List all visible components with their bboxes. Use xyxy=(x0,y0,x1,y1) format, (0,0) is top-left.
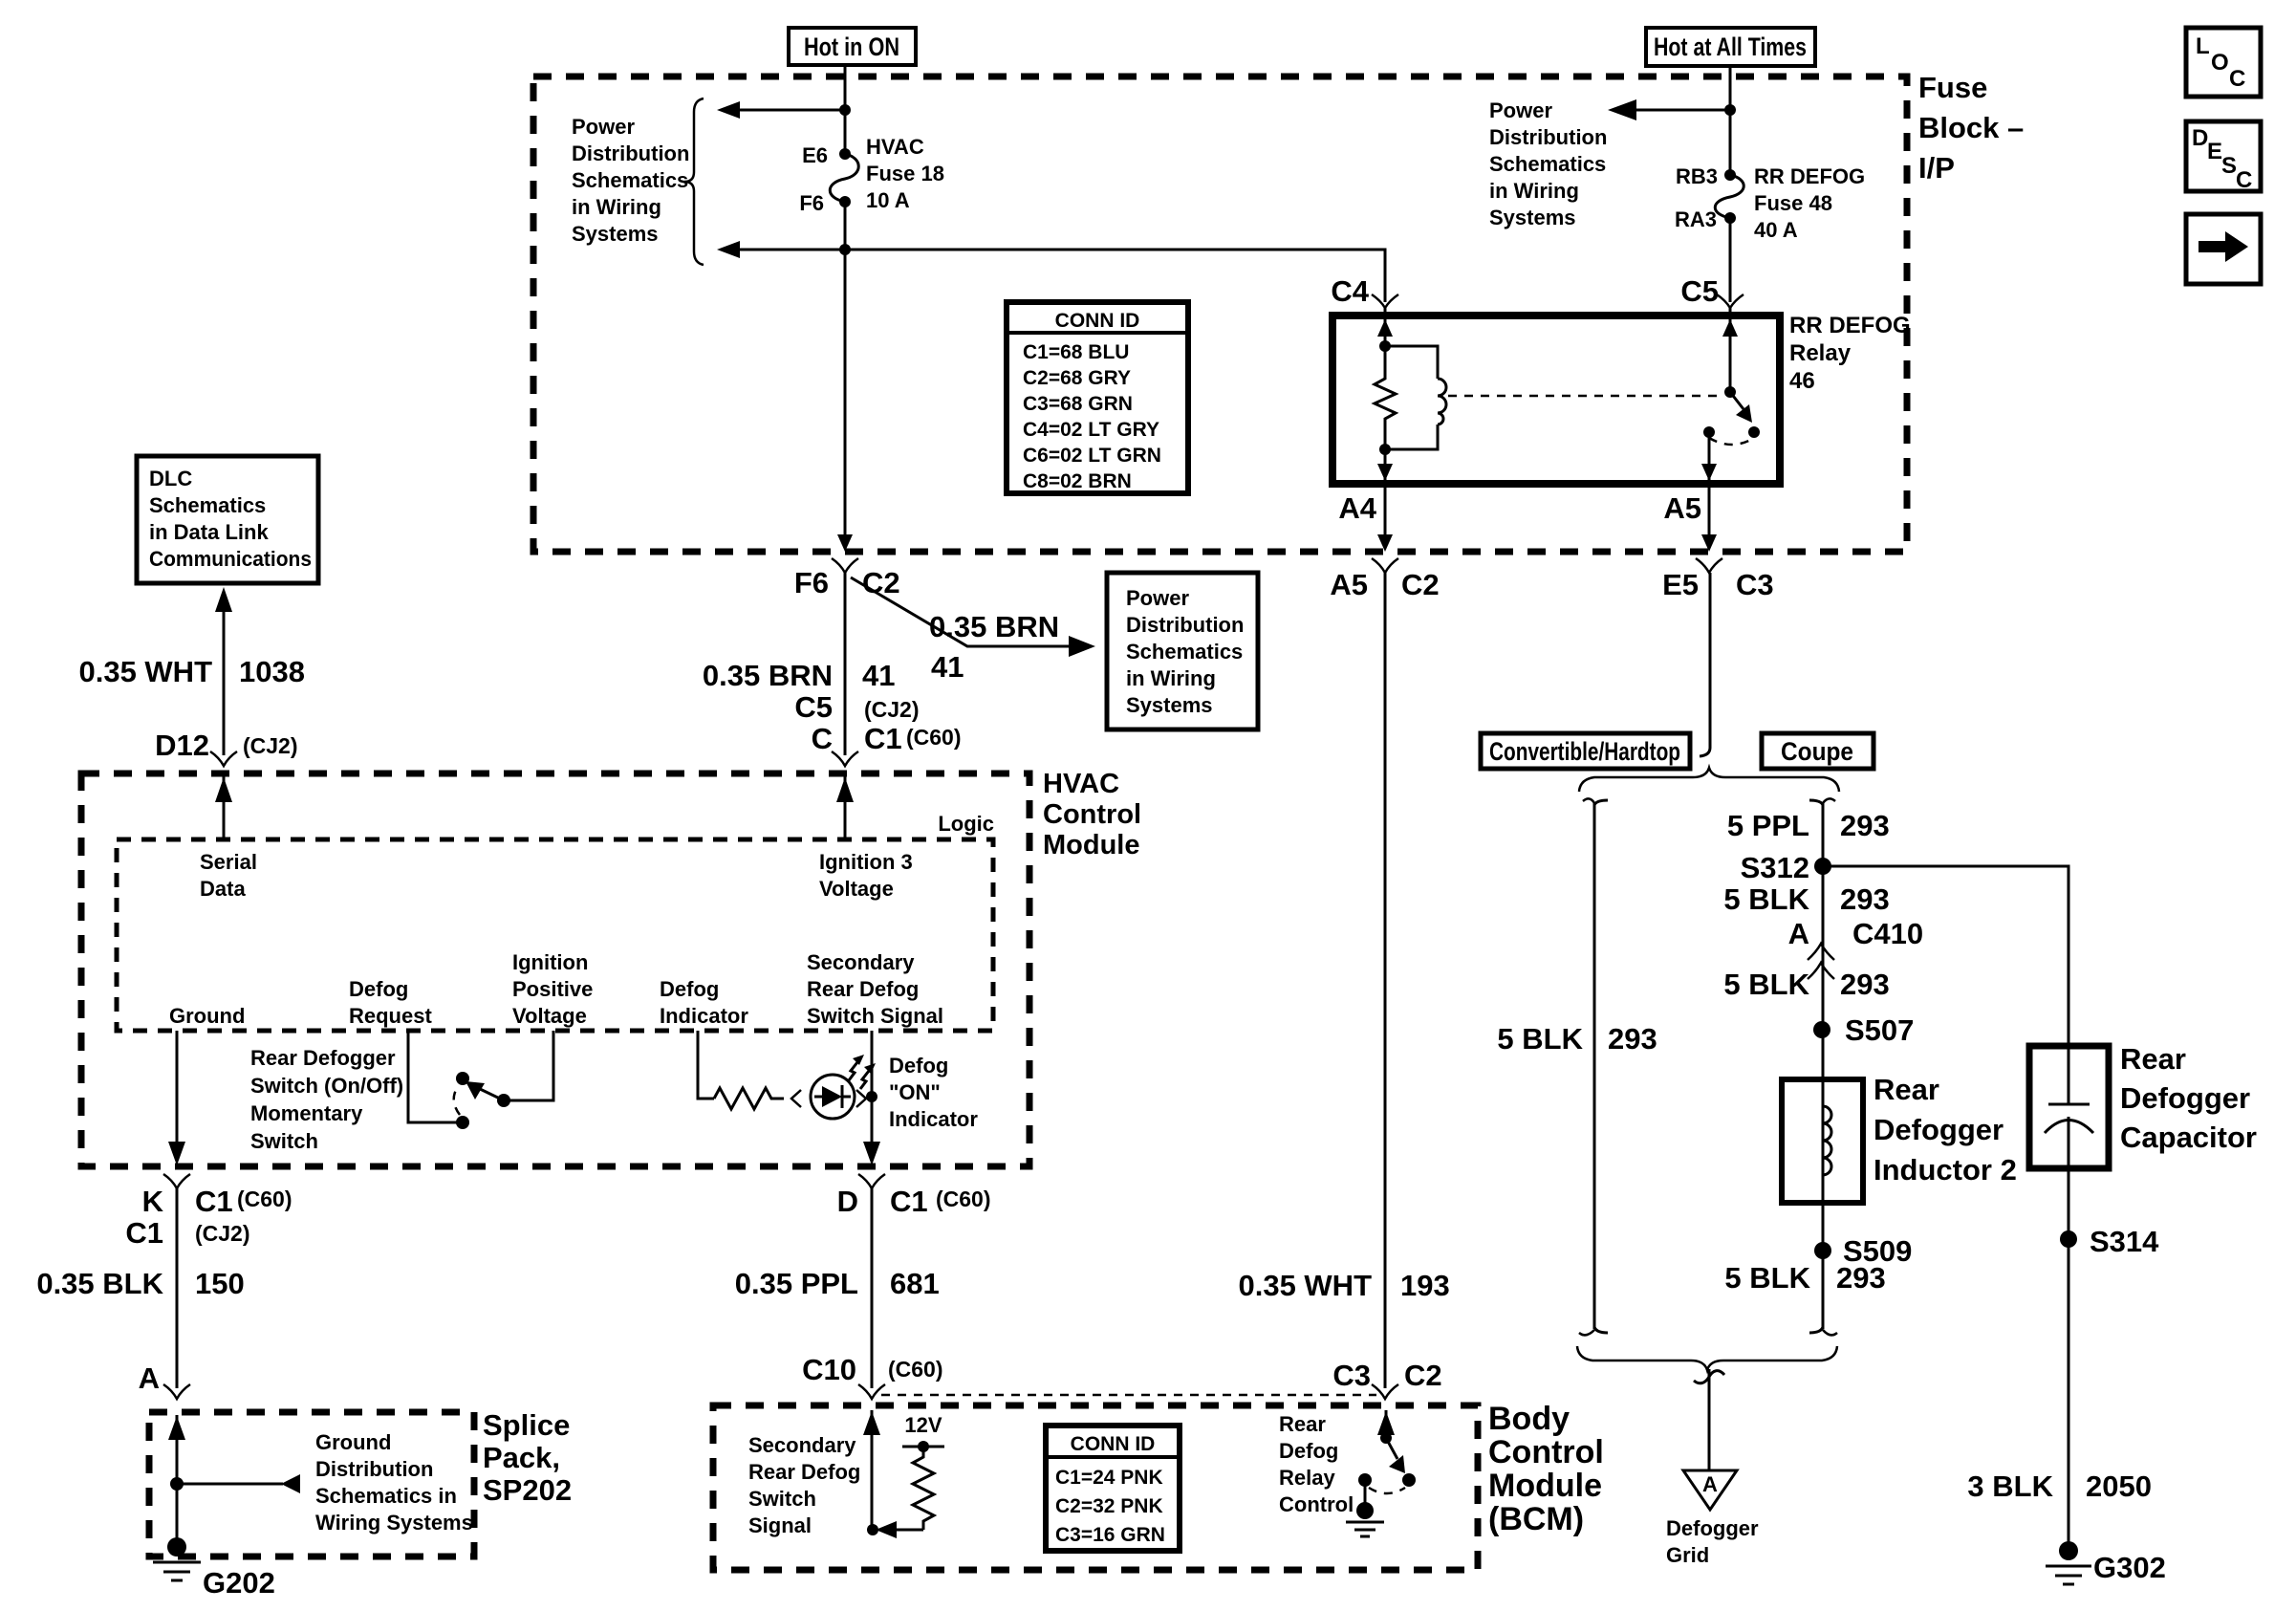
BCM ground symbol xyxy=(1346,1502,1384,1536)
svg-text:41: 41 xyxy=(931,650,964,684)
svg-text:Defog: Defog xyxy=(889,1054,948,1078)
relay internal dashed link xyxy=(1448,395,1721,398)
svg-text:Momentary: Momentary xyxy=(250,1101,363,1125)
svg-text:0.35 WHT: 0.35 WHT xyxy=(1238,1269,1372,1302)
svg-text:"ON": "ON" xyxy=(889,1080,941,1104)
node Convertible/Hardtop xyxy=(1481,733,1690,769)
svg-text:(CJ2): (CJ2) xyxy=(864,697,920,722)
svg-text:Fuse 48: Fuse 48 xyxy=(1754,191,1832,215)
svg-text:Rear Defog: Rear Defog xyxy=(807,977,919,1001)
svg-text:5 BLK: 5 BLK xyxy=(1497,1022,1583,1056)
wire serial data into module with up arrow xyxy=(215,776,232,839)
svg-text:S507: S507 xyxy=(1845,1013,1914,1047)
svg-text:HVAC: HVAC xyxy=(866,135,924,159)
label Defog ON Indicator xyxy=(889,1054,978,1131)
connector collar C4 xyxy=(1372,294,1398,308)
wire contact to BCM ground xyxy=(1364,1480,1367,1503)
brace for power distribution reference xyxy=(684,98,704,265)
svg-text:C1: C1 xyxy=(195,1185,233,1218)
svg-text:Defog: Defog xyxy=(1279,1439,1338,1463)
svg-text:Pack,: Pack, xyxy=(483,1441,560,1474)
wire A4 down to fuse block bottom xyxy=(1377,484,1393,552)
relay resistor xyxy=(1375,346,1396,449)
splice pack dashed boundary xyxy=(149,1412,474,1557)
svg-text:(C60): (C60) xyxy=(906,725,962,750)
splice junction dot xyxy=(170,1477,184,1491)
BCM switch dashed arc xyxy=(1369,1488,1405,1493)
wire arrow left lower xyxy=(717,241,845,258)
connector collar F6 at fuse block boundary xyxy=(832,558,858,573)
svg-text:C3=68 GRN: C3=68 GRN xyxy=(1023,393,1133,415)
wire A5 down to fuse block bottom xyxy=(1701,484,1717,552)
svg-text:A: A xyxy=(1788,917,1809,950)
svg-text:Grid: Grid xyxy=(1666,1543,1709,1567)
svg-text:in Data Link: in Data Link xyxy=(149,520,269,544)
svg-text:Wiring Systems: Wiring Systems xyxy=(315,1511,473,1535)
svg-text:Distribution: Distribution xyxy=(1126,613,1244,637)
svg-text:C10: C10 xyxy=(802,1353,856,1386)
svg-text:RA3: RA3 xyxy=(1675,207,1717,231)
label Secondary Rear Defog Switch Signal xyxy=(807,950,943,1028)
svg-text:Relay: Relay xyxy=(1789,340,1852,366)
wire coil to relay bottom with down arrow xyxy=(1377,449,1393,484)
wire serial data up to DLC with arrow xyxy=(215,587,232,755)
svg-text:C8=02 BRN: C8=02 BRN xyxy=(1023,470,1132,492)
svg-text:(C60): (C60) xyxy=(888,1357,943,1382)
svg-text:293: 293 xyxy=(1836,1261,1886,1295)
svg-text:Indicator: Indicator xyxy=(660,1004,748,1028)
LOC reference box xyxy=(2186,28,2261,97)
svg-text:I/P: I/P xyxy=(1918,151,1955,185)
svg-text:Distribution: Distribution xyxy=(572,142,689,165)
junction dot LED to signal wire xyxy=(866,1091,877,1102)
svg-text:(CJ2): (CJ2) xyxy=(195,1221,250,1246)
svg-text:1038: 1038 xyxy=(239,655,305,688)
svg-text:Systems: Systems xyxy=(1489,206,1576,229)
connector collar D12 xyxy=(210,751,237,766)
svg-text:SP202: SP202 xyxy=(483,1473,572,1507)
svg-text:5 BLK: 5 BLK xyxy=(1724,1261,1810,1295)
label Rear Defog Relay Control xyxy=(1279,1412,1354,1516)
label Rear Defogger Capacitor xyxy=(2120,1042,2257,1154)
svg-text:293: 293 xyxy=(1840,882,1890,916)
svg-text:46: 46 xyxy=(1789,368,1815,394)
svg-text:D12: D12 xyxy=(155,729,209,762)
arrow down at F6 exit xyxy=(837,534,853,552)
label Secondary Rear Defog Switch Signal (BCM) xyxy=(748,1433,860,1537)
connector collar C3/C2 xyxy=(1372,1384,1398,1399)
svg-text:CONN ID: CONN ID xyxy=(1055,310,1140,332)
svg-text:Defogger: Defogger xyxy=(1874,1113,2004,1146)
wire 193 down to BCM xyxy=(1384,573,1387,1388)
wire defog request drop xyxy=(408,1031,457,1122)
label Serial Data xyxy=(200,850,257,901)
wire ignition 3 voltage into module with up arrow xyxy=(836,776,854,839)
svg-text:(C60): (C60) xyxy=(237,1186,292,1211)
connector mark left of LED xyxy=(791,1090,801,1107)
svg-text:Switch (On/Off): Switch (On/Off) xyxy=(250,1074,403,1098)
svg-text:S312: S312 xyxy=(1741,851,1809,884)
splice S312 dot xyxy=(1814,858,1831,875)
momentary switch dashed arc xyxy=(454,1085,460,1115)
defogger grid brace xyxy=(1577,1346,1837,1370)
svg-text:Distribution: Distribution xyxy=(1489,125,1607,149)
wire F6/C2 down to HVAC module xyxy=(844,573,847,755)
svg-text:S: S xyxy=(2221,153,2237,179)
connector collar C10 xyxy=(858,1384,885,1399)
node Hot in ON xyxy=(789,28,916,65)
connector collar C5 xyxy=(1717,294,1744,308)
svg-text:C1=24 PNK: C1=24 PNK xyxy=(1055,1467,1163,1489)
label Power Distribution Schematics in Wiring Systems (right) xyxy=(1489,98,1607,229)
svg-text:Schematics: Schematics xyxy=(149,493,266,517)
svg-text:Request: Request xyxy=(349,1004,432,1028)
conn id table (fuse block) xyxy=(1007,302,1188,493)
svg-text:RR DEFOG: RR DEFOG xyxy=(1754,164,1865,188)
svg-text:A4: A4 xyxy=(1338,491,1376,525)
svg-text:L: L xyxy=(2196,33,2210,59)
wire BCM switch signal with up arrow xyxy=(863,1410,880,1530)
wire relay output down with arrow xyxy=(1701,432,1717,484)
label RR DEFOG Relay 46 xyxy=(1789,313,1911,394)
label Defog Request xyxy=(349,977,432,1028)
svg-text:Coupe: Coupe xyxy=(1781,737,1853,766)
wire C4 into relay with up arrow xyxy=(1377,308,1393,346)
wire RA3 down to C5 xyxy=(1729,218,1732,302)
BCM dashed boundary xyxy=(713,1405,1478,1570)
label HVAC Control Module xyxy=(1043,769,1141,860)
relay contact dashed arc xyxy=(1709,438,1754,445)
label RR DEFOG Fuse 48 40 A xyxy=(1754,164,1865,242)
svg-text:O: O xyxy=(2211,50,2229,76)
DESC reference box xyxy=(2186,121,2261,193)
relay box RR DEFOG Relay 46 xyxy=(1332,316,1780,484)
svg-text:Rear: Rear xyxy=(1874,1073,1939,1106)
wire 681 down to BCM xyxy=(871,1188,874,1388)
svg-text:C: C xyxy=(2236,167,2252,193)
svg-text:Fuse 18: Fuse 18 xyxy=(866,162,944,185)
connector collar A5 at fuse block boundary xyxy=(1696,558,1722,573)
svg-text:(C60): (C60) xyxy=(936,1186,991,1211)
svg-text:Logic: Logic xyxy=(938,812,994,836)
fuse block dashed boundary xyxy=(533,76,1907,552)
svg-text:C: C xyxy=(812,722,833,755)
label Rear Defogger Switch (On/Off) Momentary Switch xyxy=(250,1046,403,1153)
svg-text:RB3: RB3 xyxy=(1676,164,1718,188)
svg-text:A: A xyxy=(139,1361,160,1395)
svg-text:RR DEFOG: RR DEFOG xyxy=(1789,313,1911,338)
12V junction dot xyxy=(918,1441,929,1452)
svg-text:E: E xyxy=(2207,139,2222,164)
svg-text:Rear Defog: Rear Defog xyxy=(748,1460,860,1484)
svg-text:C410: C410 xyxy=(1852,917,1923,950)
svg-text:193: 193 xyxy=(1400,1269,1450,1302)
svg-text:0.35 BRN: 0.35 BRN xyxy=(929,610,1059,643)
svg-text:293: 293 xyxy=(1840,809,1890,842)
svg-text:(CJ2): (CJ2) xyxy=(243,733,298,758)
coupe bus bar xyxy=(1809,798,1837,1335)
svg-text:C1: C1 xyxy=(125,1216,163,1250)
wire ground 150 down xyxy=(176,1188,179,1388)
svg-text:Secondary: Secondary xyxy=(807,950,915,974)
svg-text:D: D xyxy=(2192,125,2208,151)
label Ground Distribution Schematics in Wiring Systems xyxy=(315,1430,473,1535)
relay coil xyxy=(1385,346,1446,449)
svg-text:Communications: Communications xyxy=(149,547,312,571)
svg-text:DLC: DLC xyxy=(149,467,192,490)
wire BCM relay control with up arrow xyxy=(1377,1410,1395,1438)
node Coupe xyxy=(1762,733,1874,769)
svg-text:0.35 BLK: 0.35 BLK xyxy=(36,1267,163,1300)
svg-text:Switch: Switch xyxy=(250,1129,318,1153)
label Splice Pack, SP202 xyxy=(483,1408,572,1507)
label Ignition Positive Voltage xyxy=(512,950,593,1028)
svg-text:Indicator: Indicator xyxy=(889,1107,978,1131)
wire arrow left to power distribution (right) xyxy=(1608,99,1730,120)
svg-text:12V: 12V xyxy=(904,1413,942,1437)
svg-text:Schematics: Schematics xyxy=(1126,640,1243,664)
svg-text:5 BLK: 5 BLK xyxy=(1723,968,1809,1001)
wire secondary rear defog switch signal down with arrow xyxy=(863,1031,880,1165)
relay coil node bottom xyxy=(1379,444,1391,455)
12V supply bar xyxy=(902,1446,944,1448)
svg-text:Inductor 2: Inductor 2 xyxy=(1874,1153,2017,1186)
svg-text:E5: E5 xyxy=(1662,568,1699,601)
svg-text:Data: Data xyxy=(200,877,246,901)
svg-text:0.35 BRN: 0.35 BRN xyxy=(703,659,833,692)
svg-text:Voltage: Voltage xyxy=(512,1004,587,1028)
svg-text:0.35 PPL: 0.35 PPL xyxy=(735,1267,858,1300)
svg-text:Secondary: Secondary xyxy=(748,1433,856,1457)
svg-text:A: A xyxy=(1702,1472,1718,1496)
svg-text:Power: Power xyxy=(1489,98,1552,122)
connector C60 dashed indicator line xyxy=(881,1394,1376,1397)
wire E5 down to variant split xyxy=(1700,573,1710,756)
logic inner dashed box xyxy=(117,839,993,1031)
LED defog ON indicator xyxy=(811,1075,855,1119)
svg-text:C2=68 GRY: C2=68 GRY xyxy=(1023,367,1131,389)
svg-text:Capacitor: Capacitor xyxy=(2120,1121,2257,1154)
label Power Distribution Schematics in Wiring Systems (left) xyxy=(572,115,689,246)
svg-text:Schematics: Schematics xyxy=(1489,152,1606,176)
svg-text:Power: Power xyxy=(1126,586,1189,610)
svg-text:Hot in ON: Hot in ON xyxy=(804,33,899,61)
splice S314 dot xyxy=(2060,1230,2077,1248)
ground G302 xyxy=(2046,1541,2091,1584)
relay coil node top xyxy=(1379,340,1391,352)
defogger grid triangle A xyxy=(1683,1470,1737,1510)
wire ground down with arrow xyxy=(168,1031,185,1165)
svg-text:C3: C3 xyxy=(1736,568,1774,601)
BCM switch pivot dot xyxy=(1380,1432,1392,1444)
wire into splice pack with up arrow xyxy=(168,1415,185,1544)
BCM pullup resistor xyxy=(913,1447,934,1530)
label Ignition 3 Voltage xyxy=(819,850,913,901)
junction dot resistor/signal xyxy=(867,1524,878,1535)
svg-text:Switch: Switch xyxy=(748,1487,816,1511)
connector mark right of LED xyxy=(856,1090,866,1107)
svg-text:Schematics: Schematics xyxy=(572,168,688,192)
connector collar C/C1 xyxy=(832,751,858,766)
svg-text:Splice: Splice xyxy=(483,1408,570,1442)
svg-text:C4=02 LT GRY: C4=02 LT GRY xyxy=(1023,419,1159,441)
svg-text:E6: E6 xyxy=(802,143,828,167)
conn id table (BCM) xyxy=(1046,1426,1180,1551)
wire defog indicator drop xyxy=(698,1031,714,1099)
svg-text:C1: C1 xyxy=(864,722,902,755)
svg-text:Block –: Block – xyxy=(1918,111,2024,144)
wire S312 branch to capacitor xyxy=(1823,866,2069,1046)
svg-text:Rear Defogger: Rear Defogger xyxy=(250,1046,396,1070)
inductor box xyxy=(1782,1079,1863,1203)
connector collar D/C1 xyxy=(858,1174,885,1188)
svg-text:C1=68 BLU: C1=68 BLU xyxy=(1023,341,1129,363)
HVAC control module dashed boundary xyxy=(81,773,1029,1166)
fuse F18 HVAC (E6-F6) xyxy=(830,148,858,207)
svg-text:A5: A5 xyxy=(1663,491,1701,525)
svg-text:Module: Module xyxy=(1043,830,1140,860)
svg-text:C4: C4 xyxy=(1331,274,1369,308)
momentary switch arm with arrow xyxy=(466,1081,504,1100)
connector collar A xyxy=(163,1384,190,1399)
svg-text:Hot at All Times: Hot at All Times xyxy=(1654,33,1807,61)
wire capacitor down to G302 xyxy=(2068,1168,2070,1547)
svg-text:Distribution: Distribution xyxy=(315,1457,433,1481)
svg-text:Voltage: Voltage xyxy=(819,877,894,901)
label Rear Defogger Inductor 2 xyxy=(1874,1073,2017,1186)
svg-text:Rear: Rear xyxy=(2120,1042,2186,1076)
svg-text:Defogger: Defogger xyxy=(2120,1081,2250,1115)
BCM switch contact dots xyxy=(1358,1473,1372,1487)
svg-text:Fuse: Fuse xyxy=(1918,71,1987,104)
svg-text:D: D xyxy=(837,1185,858,1218)
svg-text:Positive: Positive xyxy=(512,977,593,1001)
junction dot xyxy=(839,104,851,116)
svg-text:Serial: Serial xyxy=(200,850,257,874)
wire long horizontal to C4 xyxy=(845,250,1385,302)
capacitor symbol xyxy=(2045,1046,2093,1168)
svg-text:Ignition: Ignition xyxy=(512,950,588,974)
svg-text:in Wiring: in Wiring xyxy=(572,195,661,219)
svg-text:Defogger: Defogger xyxy=(1666,1516,1759,1540)
svg-text:F6: F6 xyxy=(799,191,824,215)
wire F6 down to fuse block bottom xyxy=(844,202,847,547)
LED light rays xyxy=(849,1055,876,1089)
BCM switch arm with arrow xyxy=(1386,1438,1405,1473)
label Defogger Grid xyxy=(1666,1516,1759,1567)
momentary switch lower contact dot xyxy=(456,1116,469,1129)
capacitor box xyxy=(2029,1046,2109,1168)
wire resistor to signal wire with left arrow xyxy=(876,1521,923,1538)
variant split brace xyxy=(1579,768,1839,792)
svg-text:C5: C5 xyxy=(1680,274,1719,308)
momentary switch upper contact dot xyxy=(456,1072,469,1085)
convertible bus bar xyxy=(1579,798,1608,1335)
svg-text:S314: S314 xyxy=(2090,1225,2159,1258)
svg-text:Control: Control xyxy=(1043,799,1141,830)
svg-text:C2: C2 xyxy=(1404,1359,1442,1392)
svg-text:681: 681 xyxy=(890,1267,940,1300)
connector collar K/C1 xyxy=(163,1174,190,1188)
junction dot right xyxy=(1724,104,1736,116)
svg-text:C3=16 GRN: C3=16 GRN xyxy=(1055,1524,1165,1546)
svg-text:Ground: Ground xyxy=(315,1430,391,1454)
ground G202 xyxy=(153,1537,201,1580)
junction dot lower xyxy=(839,244,851,255)
svg-text:2050: 2050 xyxy=(2086,1469,2152,1503)
svg-text:C2=32 PNK: C2=32 PNK xyxy=(1055,1495,1163,1517)
label Fuse Block - I/P xyxy=(1918,71,2024,185)
connector collar A4 at fuse block boundary xyxy=(1372,558,1398,573)
svg-text:Control: Control xyxy=(1488,1434,1604,1470)
label Defog Indicator xyxy=(660,977,748,1028)
svg-text:10 A: 10 A xyxy=(866,188,910,212)
svg-text:Body: Body xyxy=(1488,1401,1570,1437)
svg-text:5 BLK: 5 BLK xyxy=(1723,882,1809,916)
fuse 48 RR DEFOG (RB3-RA3) xyxy=(1715,169,1744,224)
svg-text:in Wiring: in Wiring xyxy=(1126,666,1216,690)
svg-text:Systems: Systems xyxy=(1126,693,1213,717)
svg-text:C3: C3 xyxy=(1332,1359,1371,1392)
svg-text:40 A: 40 A xyxy=(1754,218,1798,242)
wire inductor to S509 xyxy=(1822,1203,1825,1329)
svg-text:C6=02 LT GRN: C6=02 LT GRN xyxy=(1023,445,1161,467)
svg-text:0.35 WHT: 0.35 WHT xyxy=(78,655,212,688)
relay contact dots xyxy=(1703,426,1715,438)
svg-text:Defog: Defog xyxy=(349,977,408,1001)
svg-text:G302: G302 xyxy=(2093,1551,2166,1584)
arrow into power distribution box xyxy=(1069,636,1095,657)
label Body Control Module (BCM) xyxy=(1488,1401,1604,1537)
box Power Distribution Schematics in Wiring Systems xyxy=(1107,573,1258,729)
svg-text:(BCM): (BCM) xyxy=(1488,1501,1584,1537)
svg-text:CONN ID: CONN ID xyxy=(1071,1433,1156,1455)
svg-text:150: 150 xyxy=(195,1267,245,1300)
node Hot at All Times xyxy=(1646,28,1815,66)
svg-text:C2: C2 xyxy=(1401,568,1440,601)
svg-text:5 PPL: 5 PPL xyxy=(1727,809,1809,842)
svg-text:Signal: Signal xyxy=(748,1513,812,1537)
box DLC Schematics in Data Link Communications xyxy=(137,456,318,583)
wire C5 into relay with up arrow xyxy=(1722,308,1738,392)
svg-text:Defog: Defog xyxy=(660,977,719,1001)
svg-text:Systems: Systems xyxy=(572,222,659,246)
svg-text:Ground: Ground xyxy=(169,1004,245,1028)
svg-text:G202: G202 xyxy=(203,1566,275,1600)
momentary switch arm contact dot xyxy=(497,1094,510,1107)
wire branch diagonal to 0.35 BRN 41 xyxy=(851,577,1080,646)
svg-text:HVAC: HVAC xyxy=(1043,769,1119,799)
svg-text:Ignition 3: Ignition 3 xyxy=(819,850,913,874)
wire arrow to power distribution (upper left) xyxy=(717,101,845,119)
splice S507 dot xyxy=(1813,1021,1830,1038)
svg-text:K: K xyxy=(142,1185,164,1218)
relay switch arm with arrow xyxy=(1730,392,1752,423)
svg-text:Convertible/Hardtop: Convertible/Hardtop xyxy=(1489,737,1680,766)
svg-text:293: 293 xyxy=(1840,968,1890,1001)
svg-text:F6: F6 xyxy=(794,566,829,599)
label HVAC Fuse 18 10 A xyxy=(866,135,944,212)
wire ignition positive voltage drop xyxy=(504,1031,553,1100)
splice S509 dot xyxy=(1814,1242,1831,1259)
wire Hot in ON down to fuse E6 xyxy=(844,65,847,154)
svg-text:Relay: Relay xyxy=(1279,1466,1335,1490)
svg-text:41: 41 xyxy=(862,659,895,692)
svg-text:Schematics in: Schematics in xyxy=(315,1484,457,1508)
svg-text:Rear: Rear xyxy=(1279,1412,1326,1436)
svg-text:A5: A5 xyxy=(1330,568,1368,601)
svg-text:Control: Control xyxy=(1279,1492,1354,1516)
